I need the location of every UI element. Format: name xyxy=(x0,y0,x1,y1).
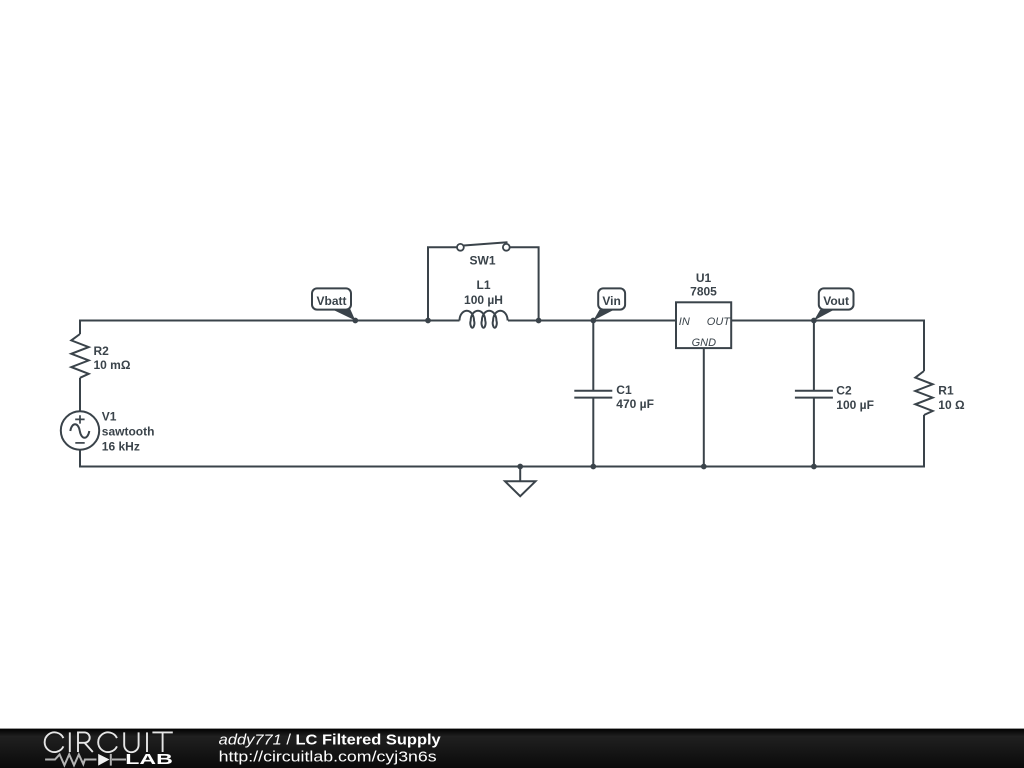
wire R2 to V1 xyxy=(79,378,81,412)
svg-text:LAB: LAB xyxy=(125,751,173,768)
logo diode triangle xyxy=(98,754,109,766)
capacitor C2 top lead xyxy=(813,321,815,391)
junction dot Vout xyxy=(811,318,817,324)
regulator U1 ground pin wire xyxy=(703,348,705,466)
node flag Vin xyxy=(593,288,625,320)
svg-text:R1: R1 xyxy=(938,384,954,398)
wire V1 to bottom rail xyxy=(79,450,81,468)
logo resistor-diode glyph xyxy=(45,754,126,766)
junction dot Vin xyxy=(590,318,596,324)
wire top rail right (Vout net) xyxy=(731,320,924,322)
svg-text:SW1: SW1 xyxy=(469,254,495,268)
svg-text:Vout: Vout xyxy=(823,294,849,308)
wire right rail top segment xyxy=(923,320,925,372)
inductor L1 coil xyxy=(460,311,508,328)
junction dot C1 bottom xyxy=(590,464,596,470)
footer bar xyxy=(0,729,1024,768)
svg-text:U1: U1 xyxy=(696,271,712,285)
source V1 sine wave xyxy=(70,424,89,438)
svg-text:Vbatt: Vbatt xyxy=(317,294,347,308)
wire switch branch left vertical xyxy=(428,247,457,320)
svg-text:IN: IN xyxy=(679,316,690,328)
capacitor C2 plates xyxy=(795,391,833,398)
svg-text:16 kHz: 16 kHz xyxy=(102,440,140,454)
resistor R1 xyxy=(915,371,932,415)
wire top rail middle (Vin net) xyxy=(508,320,676,322)
capacitor C2 bottom lead xyxy=(813,398,815,467)
wire left rail top segment xyxy=(79,320,81,335)
svg-text:GND: GND xyxy=(692,337,717,349)
junction dot switch branch left xyxy=(425,318,431,324)
wire R1 to bottom rail xyxy=(923,415,925,468)
resistor R2 xyxy=(71,334,88,378)
ground symbol xyxy=(505,467,536,497)
wire top rail left (Vbatt net) xyxy=(80,320,460,322)
svg-text:C1: C1 xyxy=(616,383,632,397)
svg-text:470 µF: 470 µF xyxy=(616,397,654,411)
svg-text:7805: 7805 xyxy=(690,285,717,299)
regulator U1 box xyxy=(676,302,731,348)
source V1 minus sign xyxy=(75,442,84,444)
capacitor C1 top lead xyxy=(592,321,594,391)
junction dot switch branch right xyxy=(536,318,542,324)
source V1 circle xyxy=(61,411,99,449)
node flag Vout xyxy=(814,288,854,320)
junction dot Vbatt xyxy=(352,318,358,324)
svg-text:10 mΩ: 10 mΩ xyxy=(94,358,131,372)
svg-text:10 Ω: 10 Ω xyxy=(938,398,965,412)
svg-text:R2: R2 xyxy=(94,344,110,358)
svg-text:http://circuitlab.com/cyj3n6s: http://circuitlab.com/cyj3n6s xyxy=(219,748,437,765)
svg-text:addy771 / LC Filtered Supply: addy771 / LC Filtered Supply xyxy=(219,732,442,749)
svg-text:OUT: OUT xyxy=(707,316,732,328)
capacitor C1 plates xyxy=(574,391,612,398)
wire switch branch right vertical xyxy=(510,246,539,320)
svg-text:L1: L1 xyxy=(476,278,490,292)
svg-text:V1: V1 xyxy=(102,410,117,424)
svg-text:Vin: Vin xyxy=(602,294,620,308)
junction dot C2 bottom xyxy=(811,464,817,470)
source V1 plus sign xyxy=(75,415,84,423)
svg-text:100 µH: 100 µH xyxy=(464,293,503,307)
svg-text:sawtooth: sawtooth xyxy=(102,425,155,439)
logo CIRCUIT wordmark xyxy=(45,732,173,752)
switch SW1 contacts and lever xyxy=(457,242,510,251)
junction dot ground xyxy=(517,464,523,470)
svg-text:100 µF: 100 µF xyxy=(836,398,874,412)
wire bottom rail (ground net) xyxy=(80,466,924,468)
svg-text:C2: C2 xyxy=(836,384,852,398)
capacitor C1 bottom lead xyxy=(592,398,594,467)
node flag Vbatt xyxy=(312,288,355,320)
junction dot U1 GND bottom xyxy=(701,464,707,470)
